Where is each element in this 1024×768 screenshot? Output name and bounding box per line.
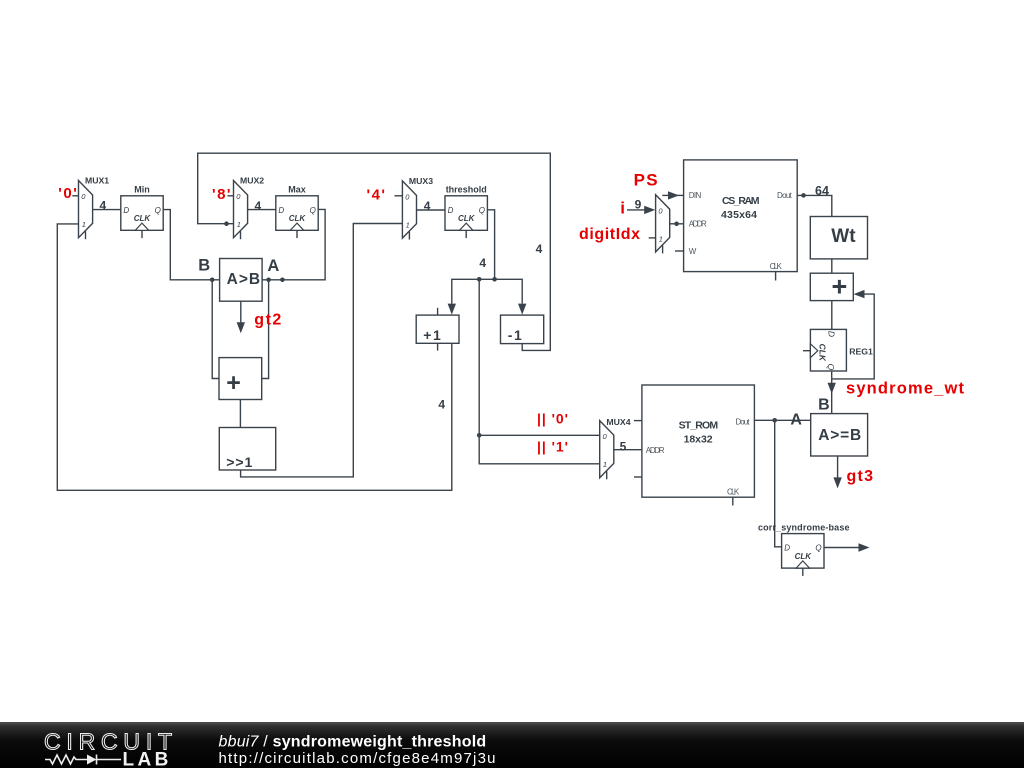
wire MUX1 input-0 stub from '0' xyxy=(72,195,78,197)
svg-text:threshold: threshold xyxy=(446,184,487,194)
wire PS arrow into CS_RAM DIN xyxy=(662,191,683,199)
wire ST_ROM Dout to A>=B A input xyxy=(754,419,810,421)
register threshold xyxy=(445,184,487,238)
svg-text:Q: Q xyxy=(826,364,836,371)
svg-text:PS: PS xyxy=(634,170,658,189)
svg-text:bbui7 / syndromeweight_thresho: bbui7 / syndromeweight_threshold xyxy=(219,733,487,750)
svg-text:CLK: CLK xyxy=(134,214,152,223)
wire branch to MUX4 input-0 xyxy=(479,434,600,436)
svg-text:A: A xyxy=(790,412,802,429)
wire A node down to adder right input xyxy=(262,280,269,379)
memory block CS_RAM 435x64 xyxy=(684,160,798,281)
comparator A>B xyxy=(220,259,263,302)
svg-text:MUX4: MUX4 xyxy=(606,417,630,427)
wire mux U8 output to CS_RAM ADDR xyxy=(670,223,684,225)
svg-text:B: B xyxy=(198,257,210,275)
svg-text:4: 4 xyxy=(255,199,262,213)
svg-text:1: 1 xyxy=(406,221,410,230)
svg-text:4: 4 xyxy=(424,199,431,213)
svg-text:http://circuitlab.com/cfge8e4m: http://circuitlab.com/cfge8e4m97j3u xyxy=(219,750,496,767)
svg-text:Min: Min xyxy=(134,184,150,194)
wire MUX2-in1 feedback loop from -1 output over the top xyxy=(198,153,551,350)
block +1 incrementer xyxy=(416,308,459,351)
svg-text:1: 1 xyxy=(237,220,241,229)
wire MUX2 output to Max D xyxy=(248,209,276,211)
svg-text:>>1: >>1 xyxy=(226,454,252,470)
wire distribution row into +1 and -1 xyxy=(448,279,527,314)
svg-text:ADDR: ADDR xyxy=(646,446,665,455)
memory block ST_ROM 18x32 xyxy=(634,385,754,506)
svg-text:W: W xyxy=(689,247,697,256)
register corr_syndrome-base xyxy=(758,522,850,576)
svg-text:ST_ROM: ST_ROM xyxy=(679,420,719,432)
svg-text:Q: Q xyxy=(815,544,821,553)
junction on MUX2 in1 wire xyxy=(224,221,229,226)
wire corr_syndrome-base Q output arrow xyxy=(824,543,870,551)
svg-text:D: D xyxy=(123,206,129,215)
svg-text:18x32: 18x32 xyxy=(684,434,713,446)
svg-text:D: D xyxy=(784,544,790,553)
wire CS_RAM Dout to Wt xyxy=(797,195,832,216)
svg-text:64: 64 xyxy=(815,184,829,198)
wire MUX1 input-1 feedback from +1 output xyxy=(57,224,452,490)
mux U8 address select xyxy=(656,195,670,254)
wire MUX3 output to threshold D xyxy=(417,209,446,211)
svg-text:1: 1 xyxy=(82,220,86,229)
svg-text:digitIdx: digitIdx xyxy=(579,226,640,243)
mux MUX1 xyxy=(79,175,110,239)
svg-text:435x64: 435x64 xyxy=(721,209,757,221)
CircuitLab logo xyxy=(44,729,178,768)
wire i index arrow into mux U8 input-0 xyxy=(627,206,655,214)
svg-text:Dout: Dout xyxy=(736,417,751,426)
svg-text:A>=B: A>=B xyxy=(818,427,861,444)
svg-text:5: 5 xyxy=(620,439,627,453)
svg-text:4: 4 xyxy=(479,256,486,270)
wire threshold Q down to distribution node xyxy=(487,210,494,279)
svg-text:MUX2: MUX2 xyxy=(240,175,264,185)
svg-text:REG1: REG1 xyxy=(849,347,873,357)
block Wt weight function xyxy=(810,217,867,259)
svg-text:'8': '8' xyxy=(212,186,231,203)
shifter >>1 xyxy=(219,428,275,471)
svg-text:CLK: CLK xyxy=(458,214,476,223)
svg-text:4: 4 xyxy=(100,198,107,212)
svg-text:+: + xyxy=(832,272,848,302)
mux MUX2 xyxy=(234,175,265,239)
wire digitIdx stub into mux U8 input-1 xyxy=(649,237,656,239)
svg-text:Q: Q xyxy=(479,206,485,215)
junction threshold Q attach xyxy=(492,277,497,282)
svg-text:|| '1': || '1' xyxy=(537,438,568,454)
junction A label attach xyxy=(280,278,285,283)
register REG1 (rotated) xyxy=(803,329,873,371)
register Min xyxy=(121,184,163,238)
wire syndrome_wt to A>=B B input xyxy=(828,379,836,414)
junction MUX4 in0 branch xyxy=(477,433,482,438)
junction distribution to MUX4 xyxy=(477,277,482,282)
wire MUX3 input-0 stub from '4' xyxy=(395,195,403,197)
svg-text:gt2: gt2 xyxy=(254,312,281,329)
svg-text:CLK: CLK xyxy=(818,344,828,362)
wire gt2 output arrow xyxy=(237,301,245,333)
wire Min Q to comparator B input xyxy=(163,210,219,280)
junction on Dout wire (64 attach) xyxy=(801,193,806,198)
wire REG1 Q output node xyxy=(831,371,833,379)
junction A node xyxy=(266,278,271,283)
mux MUX4 xyxy=(600,421,614,480)
wire REG1 feedback to adder right input xyxy=(832,290,875,379)
svg-text:9: 9 xyxy=(635,198,642,212)
adder + (right accumulator) xyxy=(810,272,853,302)
svg-text:CLK: CLK xyxy=(727,487,740,496)
svg-text:CLK: CLK xyxy=(770,262,783,271)
junction at CS_RAM ADDR xyxy=(674,222,679,227)
wire B node down to adder left input xyxy=(212,280,219,379)
junction B node xyxy=(210,278,215,283)
wire adder output to >>1 xyxy=(239,400,241,428)
svg-text:gt3: gt3 xyxy=(847,468,874,485)
svg-text:Q: Q xyxy=(155,206,161,215)
wire MUX4 output to ST_ROM ADDR xyxy=(614,449,642,451)
svg-text:'0': '0' xyxy=(58,185,77,202)
svg-text:MUX3: MUX3 xyxy=(409,176,433,186)
svg-text:Dout: Dout xyxy=(777,191,793,200)
svg-text:1: 1 xyxy=(659,234,663,243)
wire gt3 output arrow xyxy=(833,456,841,488)
svg-text:DIN: DIN xyxy=(689,191,702,200)
block -1 decrementer xyxy=(501,315,544,344)
bottom CircuitLab footer bar xyxy=(0,722,1024,768)
svg-text:CLK: CLK xyxy=(289,214,307,223)
svg-text:+: + xyxy=(226,369,241,397)
svg-text:Q: Q xyxy=(310,206,316,215)
svg-text:1: 1 xyxy=(603,460,607,469)
svg-text:MUX1: MUX1 xyxy=(85,175,109,185)
svg-text:-1: -1 xyxy=(508,327,522,343)
svg-text:corr_syndrome-base: corr_syndrome-base xyxy=(758,522,850,532)
svg-text:D: D xyxy=(278,206,284,215)
wire Dout branch down to corr_syndrome-base D xyxy=(775,420,782,547)
svg-text:A: A xyxy=(267,257,279,275)
svg-text:|| '0': || '0' xyxy=(537,410,568,426)
wire distribution down to MUX4 inputs xyxy=(479,279,600,464)
svg-text:A>B: A>B xyxy=(227,271,261,288)
svg-text:'4': '4' xyxy=(367,187,386,204)
register Max xyxy=(276,184,318,238)
wire CS_RAM W stub xyxy=(675,250,684,252)
svg-text:Max: Max xyxy=(288,184,306,194)
wire Max Q to comparator A input xyxy=(262,209,325,279)
junction Dout to corr register xyxy=(772,418,777,423)
wire >>1 output to MUX3 input-1 xyxy=(241,224,403,477)
wire adder output to REG1 D xyxy=(831,301,833,330)
svg-text:CS_RAM: CS_RAM xyxy=(722,195,760,207)
mux MUX3 xyxy=(402,176,433,240)
svg-text:4: 4 xyxy=(536,242,543,256)
svg-text:i: i xyxy=(620,199,625,218)
svg-text:Wt: Wt xyxy=(831,226,856,247)
svg-text:D: D xyxy=(448,206,454,215)
svg-text:ADDR: ADDR xyxy=(689,220,707,229)
svg-text:syndrome_wt: syndrome_wt xyxy=(846,380,965,398)
svg-text:+1: +1 xyxy=(423,327,441,343)
svg-text:CLK: CLK xyxy=(795,552,813,561)
svg-text:D: D xyxy=(826,331,836,337)
svg-text:LAB: LAB xyxy=(123,750,172,768)
wire Wt output to adder xyxy=(831,259,833,273)
svg-text:B: B xyxy=(818,396,830,413)
comparator A>=B xyxy=(811,414,868,456)
wire MUX1 output to Min D xyxy=(93,209,121,211)
svg-text:4: 4 xyxy=(438,398,445,412)
wire MUX2 input-0 stub from '8' xyxy=(228,195,234,197)
adder + (left) xyxy=(219,358,262,400)
